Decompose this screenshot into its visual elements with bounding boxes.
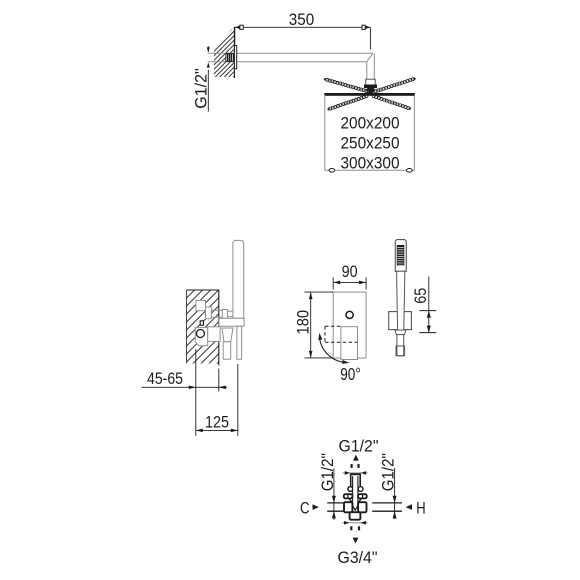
top port dim arrow right xyxy=(361,471,367,475)
label G1/2 leader arrow down xyxy=(207,47,210,52)
shower head connector flange xyxy=(365,85,377,88)
shower arm bottom edge xyxy=(208,61,367,63)
dimension text 350 xyxy=(289,10,315,29)
svg-text:65: 65 xyxy=(411,288,430,304)
size text 300x300 xyxy=(341,154,400,172)
wand holder bracket xyxy=(219,318,244,326)
dimension 90 arrow left xyxy=(333,281,340,285)
rotation arc arrow right xyxy=(342,360,349,364)
hidden line dots bottom xyxy=(351,527,360,530)
spray line upper-right xyxy=(374,78,416,93)
rotation arc arrow up xyxy=(318,333,322,340)
valve lower body xyxy=(195,327,208,345)
wall surface line (top figure) xyxy=(233,27,235,78)
hand shower wand (side view) xyxy=(233,240,244,318)
size text 250x250 xyxy=(341,134,400,152)
flow arrow up xyxy=(353,455,359,461)
dimension 65 line xyxy=(428,277,430,333)
dimension 45-65 arrow right-pointing xyxy=(189,386,196,390)
valve top port xyxy=(350,474,361,486)
shower head foot left xyxy=(329,169,335,173)
spray line lower-left xyxy=(327,95,368,111)
valve upper box xyxy=(196,300,206,310)
label G1/2 top xyxy=(339,437,379,456)
dimension 45-65 extension line (valve plane) xyxy=(195,349,197,436)
bottom port dim arrow right xyxy=(360,521,366,525)
dimension 125 arrow right xyxy=(231,429,238,433)
dimension 90 arrow right xyxy=(359,281,366,285)
svg-text:G1/2": G1/2" xyxy=(192,68,211,109)
handle rotation arc xyxy=(320,336,347,363)
right leader arrow up xyxy=(393,511,397,518)
top port dimension line xyxy=(342,472,368,474)
mixer lever (side view) xyxy=(222,328,233,359)
diverter button xyxy=(346,311,353,318)
dimension 45-65 arrow left-pointing xyxy=(219,386,226,390)
dimension text 45-65 xyxy=(147,369,183,388)
hand shower handle xyxy=(397,271,405,330)
spray line upper-left xyxy=(324,78,371,93)
label G1/2 leader arrow up xyxy=(207,62,210,67)
dimension text 90 xyxy=(342,262,358,281)
hot inlet arrow xyxy=(406,504,412,510)
wall hatch (top figure) xyxy=(214,8,235,101)
wall surface line (mixer side view) xyxy=(218,290,220,366)
handle rotated position (dashed) xyxy=(325,326,357,342)
hand shower spray face xyxy=(397,245,404,265)
svg-text:G1/2": G1/2" xyxy=(318,453,337,491)
dimension text 65 xyxy=(411,288,430,304)
left leader arrow down xyxy=(332,496,336,503)
label G1/2 leader line (top) xyxy=(207,46,209,111)
wand lower bar xyxy=(237,326,242,359)
hand shower bracket plate xyxy=(389,312,412,330)
svg-text:125: 125 xyxy=(205,412,229,431)
outlet wing right xyxy=(358,494,367,502)
svg-text:200x200: 200x200 xyxy=(341,114,400,132)
outlet stem lines xyxy=(211,310,222,317)
label H xyxy=(416,498,425,517)
outlet wing left xyxy=(344,494,353,502)
shower head top edge xyxy=(325,93,415,95)
dimension 350 extension line left xyxy=(234,27,236,45)
outlet to wand xyxy=(228,311,233,316)
dimension 125 extension line (right) xyxy=(237,364,239,436)
check valve right xyxy=(358,487,363,492)
dimension 180 line xyxy=(310,292,312,358)
label G1/2 left leader xyxy=(333,469,335,520)
hidden line dots top xyxy=(351,464,360,467)
label G1/2 right leader xyxy=(394,468,396,519)
wall top border (mixer side view) xyxy=(187,289,219,291)
shower head foot right xyxy=(407,169,413,173)
valve body left xyxy=(344,502,352,512)
svg-text:45-65: 45-65 xyxy=(147,369,183,388)
svg-text:C: C xyxy=(300,498,310,517)
dimension 45-65 extension line (wall surface) xyxy=(218,369,220,392)
svg-text:90: 90 xyxy=(342,262,358,281)
dimension 65 tick top xyxy=(419,310,436,312)
svg-text:300x300: 300x300 xyxy=(341,154,400,172)
cold inlet arrow xyxy=(313,504,319,510)
svg-text:G1/2": G1/2" xyxy=(379,453,398,491)
dimension 180 extension top xyxy=(305,291,334,293)
hand shower connector xyxy=(395,330,406,335)
svg-text:90°: 90° xyxy=(340,364,361,384)
hand shower outlet tube xyxy=(397,335,404,356)
svg-text:350: 350 xyxy=(289,10,315,29)
shower head connector nut xyxy=(366,79,375,85)
size text 200x200 xyxy=(341,114,400,132)
dimension 350 arrow left xyxy=(235,25,243,29)
angle text 90deg xyxy=(340,364,361,384)
shower head outline square xyxy=(325,95,415,170)
outlet coupling nut xyxy=(222,310,227,319)
dimension 90 line xyxy=(333,281,366,283)
spray line lower-right xyxy=(372,95,411,110)
dimension 65 arrow down xyxy=(427,326,431,333)
shower arm top edge xyxy=(208,52,373,54)
hot inlet pipe xyxy=(372,503,402,511)
dimension text 180 xyxy=(294,310,313,335)
shower arm wall thread xyxy=(226,54,234,62)
label C xyxy=(300,498,310,517)
mixer trim plate (front view) xyxy=(333,292,366,358)
valve cartridge housing xyxy=(208,327,220,342)
shower head ball joint xyxy=(366,87,375,93)
label G1/2 (top figure) xyxy=(192,68,211,109)
dimension 350 extension line right xyxy=(369,27,371,49)
dimension text 125 xyxy=(205,412,229,431)
dimension 125 line xyxy=(196,429,238,431)
bottom port dimension line xyxy=(342,522,368,524)
label G1/2 right xyxy=(379,453,398,491)
dimension 125 arrow left xyxy=(196,429,203,433)
left leader arrow up xyxy=(332,511,336,518)
top port dim arrow left xyxy=(345,471,351,475)
svg-text:250x250: 250x250 xyxy=(341,134,400,152)
dimension 90 extension lines xyxy=(333,278,366,290)
label G1/2 left xyxy=(318,453,337,491)
valve body right xyxy=(358,502,366,512)
shower arm wall flange xyxy=(234,46,236,69)
svg-text:G3/4": G3/4" xyxy=(338,548,378,567)
dimension 45-65 line xyxy=(142,386,228,388)
dimension 180 arrow down xyxy=(309,351,313,358)
svg-text:G1/2": G1/2" xyxy=(339,437,379,456)
label G3/4 xyxy=(338,548,378,567)
hand shower outlet tip xyxy=(396,346,405,356)
valve pipe circle xyxy=(196,330,204,338)
dimension 65 arrow up xyxy=(427,311,431,318)
dimension 180 extension bottom xyxy=(305,357,334,359)
cold inlet pipe xyxy=(327,503,344,511)
check valve left xyxy=(348,487,353,492)
dimension 350 line xyxy=(235,26,371,28)
valve upper-right box xyxy=(206,307,212,319)
dimension 65 tick bottom xyxy=(419,332,436,334)
wall left border xyxy=(186,290,188,364)
right leader arrow down xyxy=(393,496,397,503)
dimension 350 arrow right xyxy=(362,25,370,29)
mixer handle (front view) xyxy=(341,327,358,360)
flow arrow down xyxy=(353,538,359,544)
svg-text:180: 180 xyxy=(294,310,313,335)
dimension 180 arrow up xyxy=(309,292,313,299)
shower arm bend chamfer xyxy=(367,53,373,62)
valve screw xyxy=(200,321,203,325)
svg-text:H: H xyxy=(416,498,425,517)
shower arm vertical tube xyxy=(367,54,375,80)
valve bottom port xyxy=(350,512,361,520)
wall hatch (mixer side view) xyxy=(187,258,219,402)
valve center tube xyxy=(353,476,358,510)
bottom port dim arrow left xyxy=(344,521,350,525)
hand shower head xyxy=(395,240,406,272)
